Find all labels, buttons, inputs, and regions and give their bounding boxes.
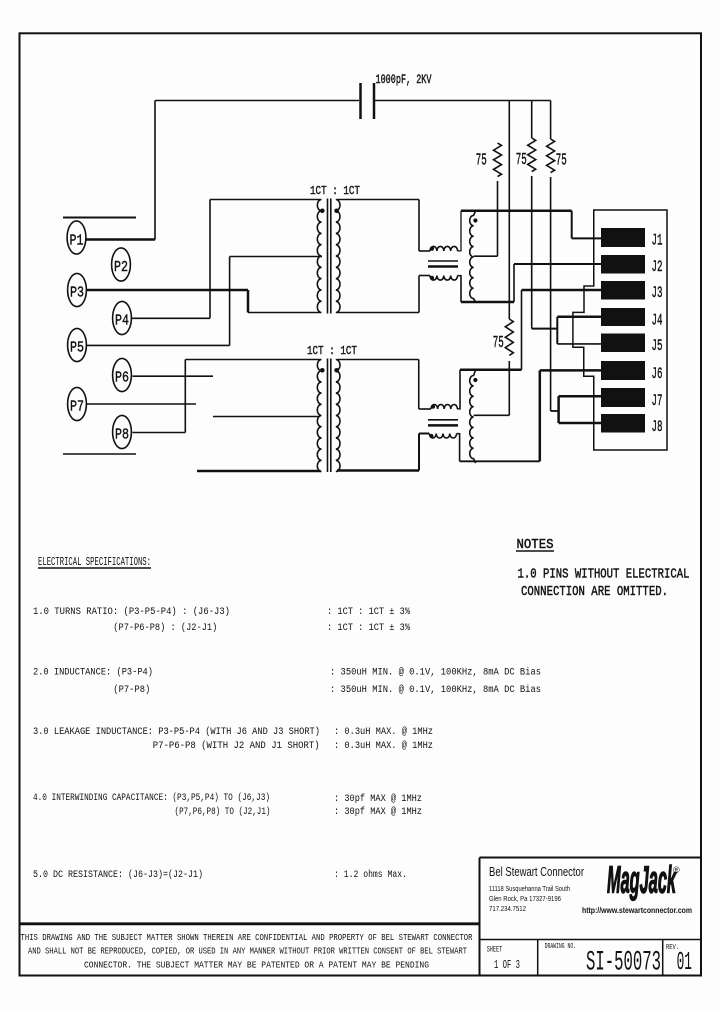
svg-text:J6: J6 bbox=[652, 365, 663, 383]
svg-text:CONNECTION ARE OMITTED.: CONNECTION ARE OMITTED. bbox=[521, 584, 668, 600]
svg-text:75: 75 bbox=[476, 151, 487, 170]
svg-text:: 0.3uH MAX. @ 1MHz: : 0.3uH MAX. @ 1MHz bbox=[334, 740, 433, 752]
svg-text:75: 75 bbox=[516, 150, 527, 169]
svg-text:ELECTRICAL SPECIFICATIONS:: ELECTRICAL SPECIFICATIONS: bbox=[38, 556, 151, 569]
svg-text:P3: P3 bbox=[70, 285, 84, 302]
svg-text:AND SHALL NOT BE REPRODUCED, C: AND SHALL NOT BE REPRODUCED, COPIED, OR … bbox=[28, 947, 467, 957]
svg-text:: 1CT : 1CT ± 3%: : 1CT : 1CT ± 3% bbox=[327, 607, 410, 618]
svg-text:1 OF 3: 1 OF 3 bbox=[494, 958, 520, 972]
svg-text:: 350uH MIN. @ 0.1V, 100KHz, 8: : 350uH MIN. @ 0.1V, 100KHz, 8mA DC Bias bbox=[330, 667, 541, 679]
svg-text:: 0.3uH MAX. @ 1MHz: : 0.3uH MAX. @ 1MHz bbox=[334, 726, 433, 738]
svg-text:: 30pf MAX @ 1MHz: : 30pf MAX @ 1MHz bbox=[334, 806, 422, 818]
svg-text:P7-P6-P8 (WITH J2 AND J1 SHORT: P7-P6-P8 (WITH J2 AND J1 SHORT) bbox=[153, 740, 320, 752]
svg-text:P6: P6 bbox=[115, 370, 129, 387]
svg-text:1.0 TURNS RATIO: (P3-P5-P4) :: 1.0 TURNS RATIO: (P3-P5-P4) : (J6-J3) bbox=[33, 606, 230, 618]
svg-text:J2: J2 bbox=[652, 258, 663, 276]
svg-text:MagJack: MagJack bbox=[607, 860, 677, 902]
svg-text:P8: P8 bbox=[115, 427, 129, 444]
svg-text:SI-50073: SI-50073 bbox=[586, 948, 661, 979]
svg-text:J5: J5 bbox=[652, 337, 663, 355]
svg-text:: 1.2 ohms Max.: : 1.2 ohms Max. bbox=[334, 869, 407, 881]
svg-text:SHEET: SHEET bbox=[487, 946, 503, 955]
svg-text:1000pF, 2KV: 1000pF, 2KV bbox=[376, 72, 432, 87]
svg-text:THIS DRAWING AND THE SUBJECT M: THIS DRAWING AND THE SUBJECT MATTER SHOW… bbox=[21, 933, 473, 943]
svg-text:5.0 DC RESISTANCE: (J6-J3)=(J2: 5.0 DC RESISTANCE: (J6-J3)=(J2-J1) bbox=[33, 869, 203, 881]
svg-text:(P7,P6,P8) TO (J2,J1): (P7,P6,P8) TO (J2,J1) bbox=[175, 806, 271, 818]
svg-text:P7: P7 bbox=[70, 399, 84, 416]
svg-text:: 30pf MAX @ 1MHz: : 30pf MAX @ 1MHz bbox=[334, 793, 422, 805]
svg-text:P4: P4 bbox=[115, 313, 129, 330]
svg-text:(P7-P8): (P7-P8) bbox=[113, 684, 150, 696]
svg-text:717.234.7512: 717.234.7512 bbox=[489, 906, 526, 913]
svg-text:2.0 INDUCTANCE: (P3-P4): 2.0 INDUCTANCE: (P3-P4) bbox=[33, 667, 153, 679]
svg-text:75: 75 bbox=[493, 333, 504, 352]
svg-text:DRAWING NO.: DRAWING NO. bbox=[545, 943, 577, 951]
svg-text:J4: J4 bbox=[652, 312, 663, 330]
svg-text:1CT : 1CT: 1CT : 1CT bbox=[307, 345, 357, 358]
svg-text:: 350uH MIN. @ 0.1V, 100KHz, 8: : 350uH MIN. @ 0.1V, 100KHz, 8mA DC Bias bbox=[330, 684, 541, 696]
svg-text:J7: J7 bbox=[652, 392, 663, 410]
svg-text:J1: J1 bbox=[652, 232, 663, 250]
svg-text:1CT : 1CT: 1CT : 1CT bbox=[310, 185, 360, 198]
svg-text:3.0 LEAKAGE INDUCTANCE: P3-P5: 3.0 LEAKAGE INDUCTANCE: P3-P5-P4 (WITH J… bbox=[33, 726, 320, 738]
svg-text:http://www.stewartconnector.co: http://www.stewartconnector.com bbox=[582, 905, 692, 915]
svg-text:75: 75 bbox=[556, 151, 567, 170]
svg-text:11118 Susquehanna Trail South: 11118 Susquehanna Trail South bbox=[489, 886, 570, 893]
svg-text:Glen Rock, Pa 17327-9196: Glen Rock, Pa 17327-9196 bbox=[489, 896, 561, 903]
svg-text:®: ® bbox=[673, 865, 680, 875]
svg-text:01: 01 bbox=[677, 947, 692, 977]
svg-text:P5: P5 bbox=[70, 340, 84, 357]
svg-text:Bel Stewart Connector: Bel Stewart Connector bbox=[489, 864, 584, 879]
svg-text:: 1CT : 1CT ± 3%: : 1CT : 1CT ± 3% bbox=[327, 623, 410, 634]
svg-text:1.0 PINS WITHOUT ELECTRICAL: 1.0 PINS WITHOUT ELECTRICAL bbox=[518, 567, 690, 583]
svg-text:P2: P2 bbox=[114, 259, 128, 276]
svg-text:(P7-P6-P8) : (J2-J1): (P7-P6-P8) : (J2-J1) bbox=[113, 622, 217, 634]
svg-text:J3: J3 bbox=[652, 284, 663, 302]
svg-text:4.0 INTERWINDING CAPACITANCE:: 4.0 INTERWINDING CAPACITANCE: (P3,P5,P4)… bbox=[33, 792, 270, 804]
svg-text:CONNECTOR. THE SUBJECT MATTER: CONNECTOR. THE SUBJECT MATTER MAY BE PAT… bbox=[84, 961, 429, 971]
svg-text:J8: J8 bbox=[652, 418, 663, 436]
svg-text:P1: P1 bbox=[70, 233, 84, 250]
